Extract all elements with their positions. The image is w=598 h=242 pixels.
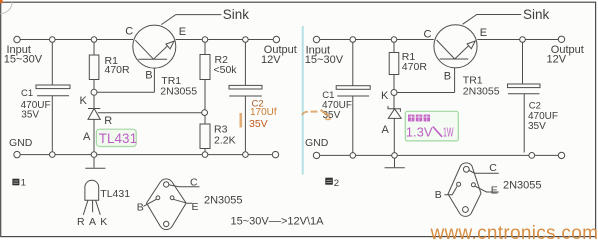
2N3055 TO-3 package drawing fig2: [448, 163, 481, 216]
TL431 green label box: [96, 129, 136, 146]
svg-text:R: R: [104, 115, 112, 127]
wire K to base: [97, 91, 154, 93]
sink callout fig1: [161, 15, 221, 25]
svg-text:K: K: [381, 90, 389, 102]
svg-text:2N3055: 2N3055: [463, 85, 500, 97]
svg-text:2N3055: 2N3055: [160, 86, 197, 98]
input terminal fig1: [14, 36, 20, 42]
zener green label box: [405, 111, 458, 141]
node K fig1: [91, 89, 97, 95]
ground stub fig2: [394, 158, 396, 167]
2N3055 TO-3 package drawing fig1: [147, 179, 187, 230]
figure1 caption: [12, 178, 25, 189]
node C1 top fig2: [350, 37, 356, 43]
pin B leader fig2: [444, 187, 457, 195]
svg-text:K: K: [80, 95, 88, 107]
input terminal fig2: [313, 36, 319, 42]
svg-text:B: B: [444, 70, 451, 82]
sink callout fig2: [463, 15, 522, 25]
svg-text:A: A: [382, 124, 390, 136]
capacitor C1: [51, 42, 53, 85]
wire top rail fig1 left: [20, 39, 133, 41]
svg-text:B: B: [145, 70, 152, 82]
svg-text:2N3055: 2N3055: [503, 180, 542, 192]
corner arc artifact: [1, 2, 12, 13]
wire top rail fig2 left: [320, 39, 434, 41]
svg-text:TL431: TL431: [100, 188, 130, 200]
resistor R3: [204, 116, 206, 125]
svg-text:2.2K: 2.2K: [214, 135, 236, 147]
figure2 caption: [325, 178, 339, 189]
svg-text:C1: C1: [21, 88, 33, 99]
pin E leader fig2: [475, 186, 499, 192]
svg-text:35V: 35V: [528, 121, 546, 132]
transistor TR1 2N3055 fig2: [434, 25, 477, 68]
zener diode fig2: [393, 96, 395, 109]
svg-text:470R: 470R: [105, 64, 131, 76]
node R1 top fig2: [391, 37, 397, 43]
svg-text:2N3055: 2N3055: [204, 194, 243, 206]
divider: [302, 26, 304, 175]
svg-text:E: E: [179, 26, 186, 38]
capacitor C2 fig1: [244, 42, 246, 85]
resistor R1 fig2: [393, 42, 395, 52]
wire TL431 ref to R2/R3 node: [98, 112, 205, 114]
svg-text:15~30V: 15~30V: [305, 54, 344, 66]
pin B leader fig1: [144, 199, 157, 206]
node C2 top fig2: [520, 37, 526, 43]
node R2 top: [202, 37, 208, 43]
ground rail fig1: [20, 154, 272, 156]
svg-text:<50k: <50k: [214, 64, 238, 76]
svg-text:Sink: Sink: [223, 7, 250, 22]
wire top rail fig2 right: [477, 39, 558, 41]
pin E leader fig1: [173, 199, 192, 203]
transistor TR1 2N3055 fig1: [133, 25, 176, 68]
svg-text:B: B: [435, 189, 442, 201]
svg-text:C: C: [190, 176, 198, 188]
svg-text:E: E: [491, 185, 498, 197]
svg-text:1: 1: [21, 178, 26, 189]
node K fig2: [391, 90, 397, 96]
capacitor C1 fig2: [352, 42, 354, 85]
svg-text:K: K: [100, 216, 107, 228]
svg-text:E: E: [480, 27, 487, 39]
svg-text:GND: GND: [9, 137, 33, 149]
pin C leader fig1: [169, 185, 200, 187]
wire K to base fig2: [397, 92, 455, 94]
svg-text:www.cntronics.com: www.cntronics.com: [430, 223, 598, 242]
node C1 top: [50, 37, 56, 43]
svg-text:C: C: [424, 29, 432, 41]
svg-text:15~30V––>12V\1A: 15~30V––>12V\1A: [231, 216, 325, 228]
TL431 shunt regulator D1: [93, 95, 95, 108]
svg-text:TL431: TL431: [99, 131, 137, 146]
svg-text:1.3V: 1.3V: [406, 124, 433, 139]
svg-text:C: C: [125, 26, 133, 38]
resistor R1: [93, 42, 95, 55]
svg-text:A: A: [83, 131, 91, 143]
svg-text:A: A: [89, 216, 96, 228]
svg-text:C1: C1: [322, 90, 334, 101]
resistor R2: [204, 42, 206, 54]
watermark middle fragments: [241, 110, 331, 128]
svg-text:C: C: [489, 162, 497, 174]
pin C leader fig2: [469, 171, 499, 174]
svg-text:170Uf: 170Uf: [250, 107, 277, 118]
output terminal fig1: [273, 36, 279, 42]
wire top rail fig1 right: [176, 39, 274, 41]
svg-text:12V: 12V: [261, 54, 281, 66]
svg-text:E: E: [192, 201, 199, 213]
capacitor C2 fig2: [522, 42, 524, 84]
svg-text:B: B: [137, 202, 144, 214]
svg-text:35V: 35V: [21, 109, 39, 120]
svg-text:15~30V: 15~30V: [4, 54, 43, 66]
node R2/R3 junction: [202, 110, 208, 116]
output terminal fig2: [558, 36, 564, 42]
node C2 top: [243, 37, 249, 43]
svg-text:R: R: [77, 216, 85, 228]
svg-text:1W: 1W: [443, 124, 454, 139]
svg-text:470R: 470R: [402, 61, 428, 73]
svg-text:GND: GND: [305, 137, 329, 149]
node R1 top: [91, 37, 97, 43]
ground rail fig2: [320, 154, 559, 156]
svg-text:2: 2: [334, 178, 339, 189]
svg-text:35V: 35V: [249, 118, 268, 130]
ground stub fig1: [93, 158, 95, 168]
TL431 TO-92 package drawing: [85, 180, 99, 200]
svg-text:Sink: Sink: [523, 7, 550, 22]
svg-text:12V: 12V: [547, 54, 567, 66]
